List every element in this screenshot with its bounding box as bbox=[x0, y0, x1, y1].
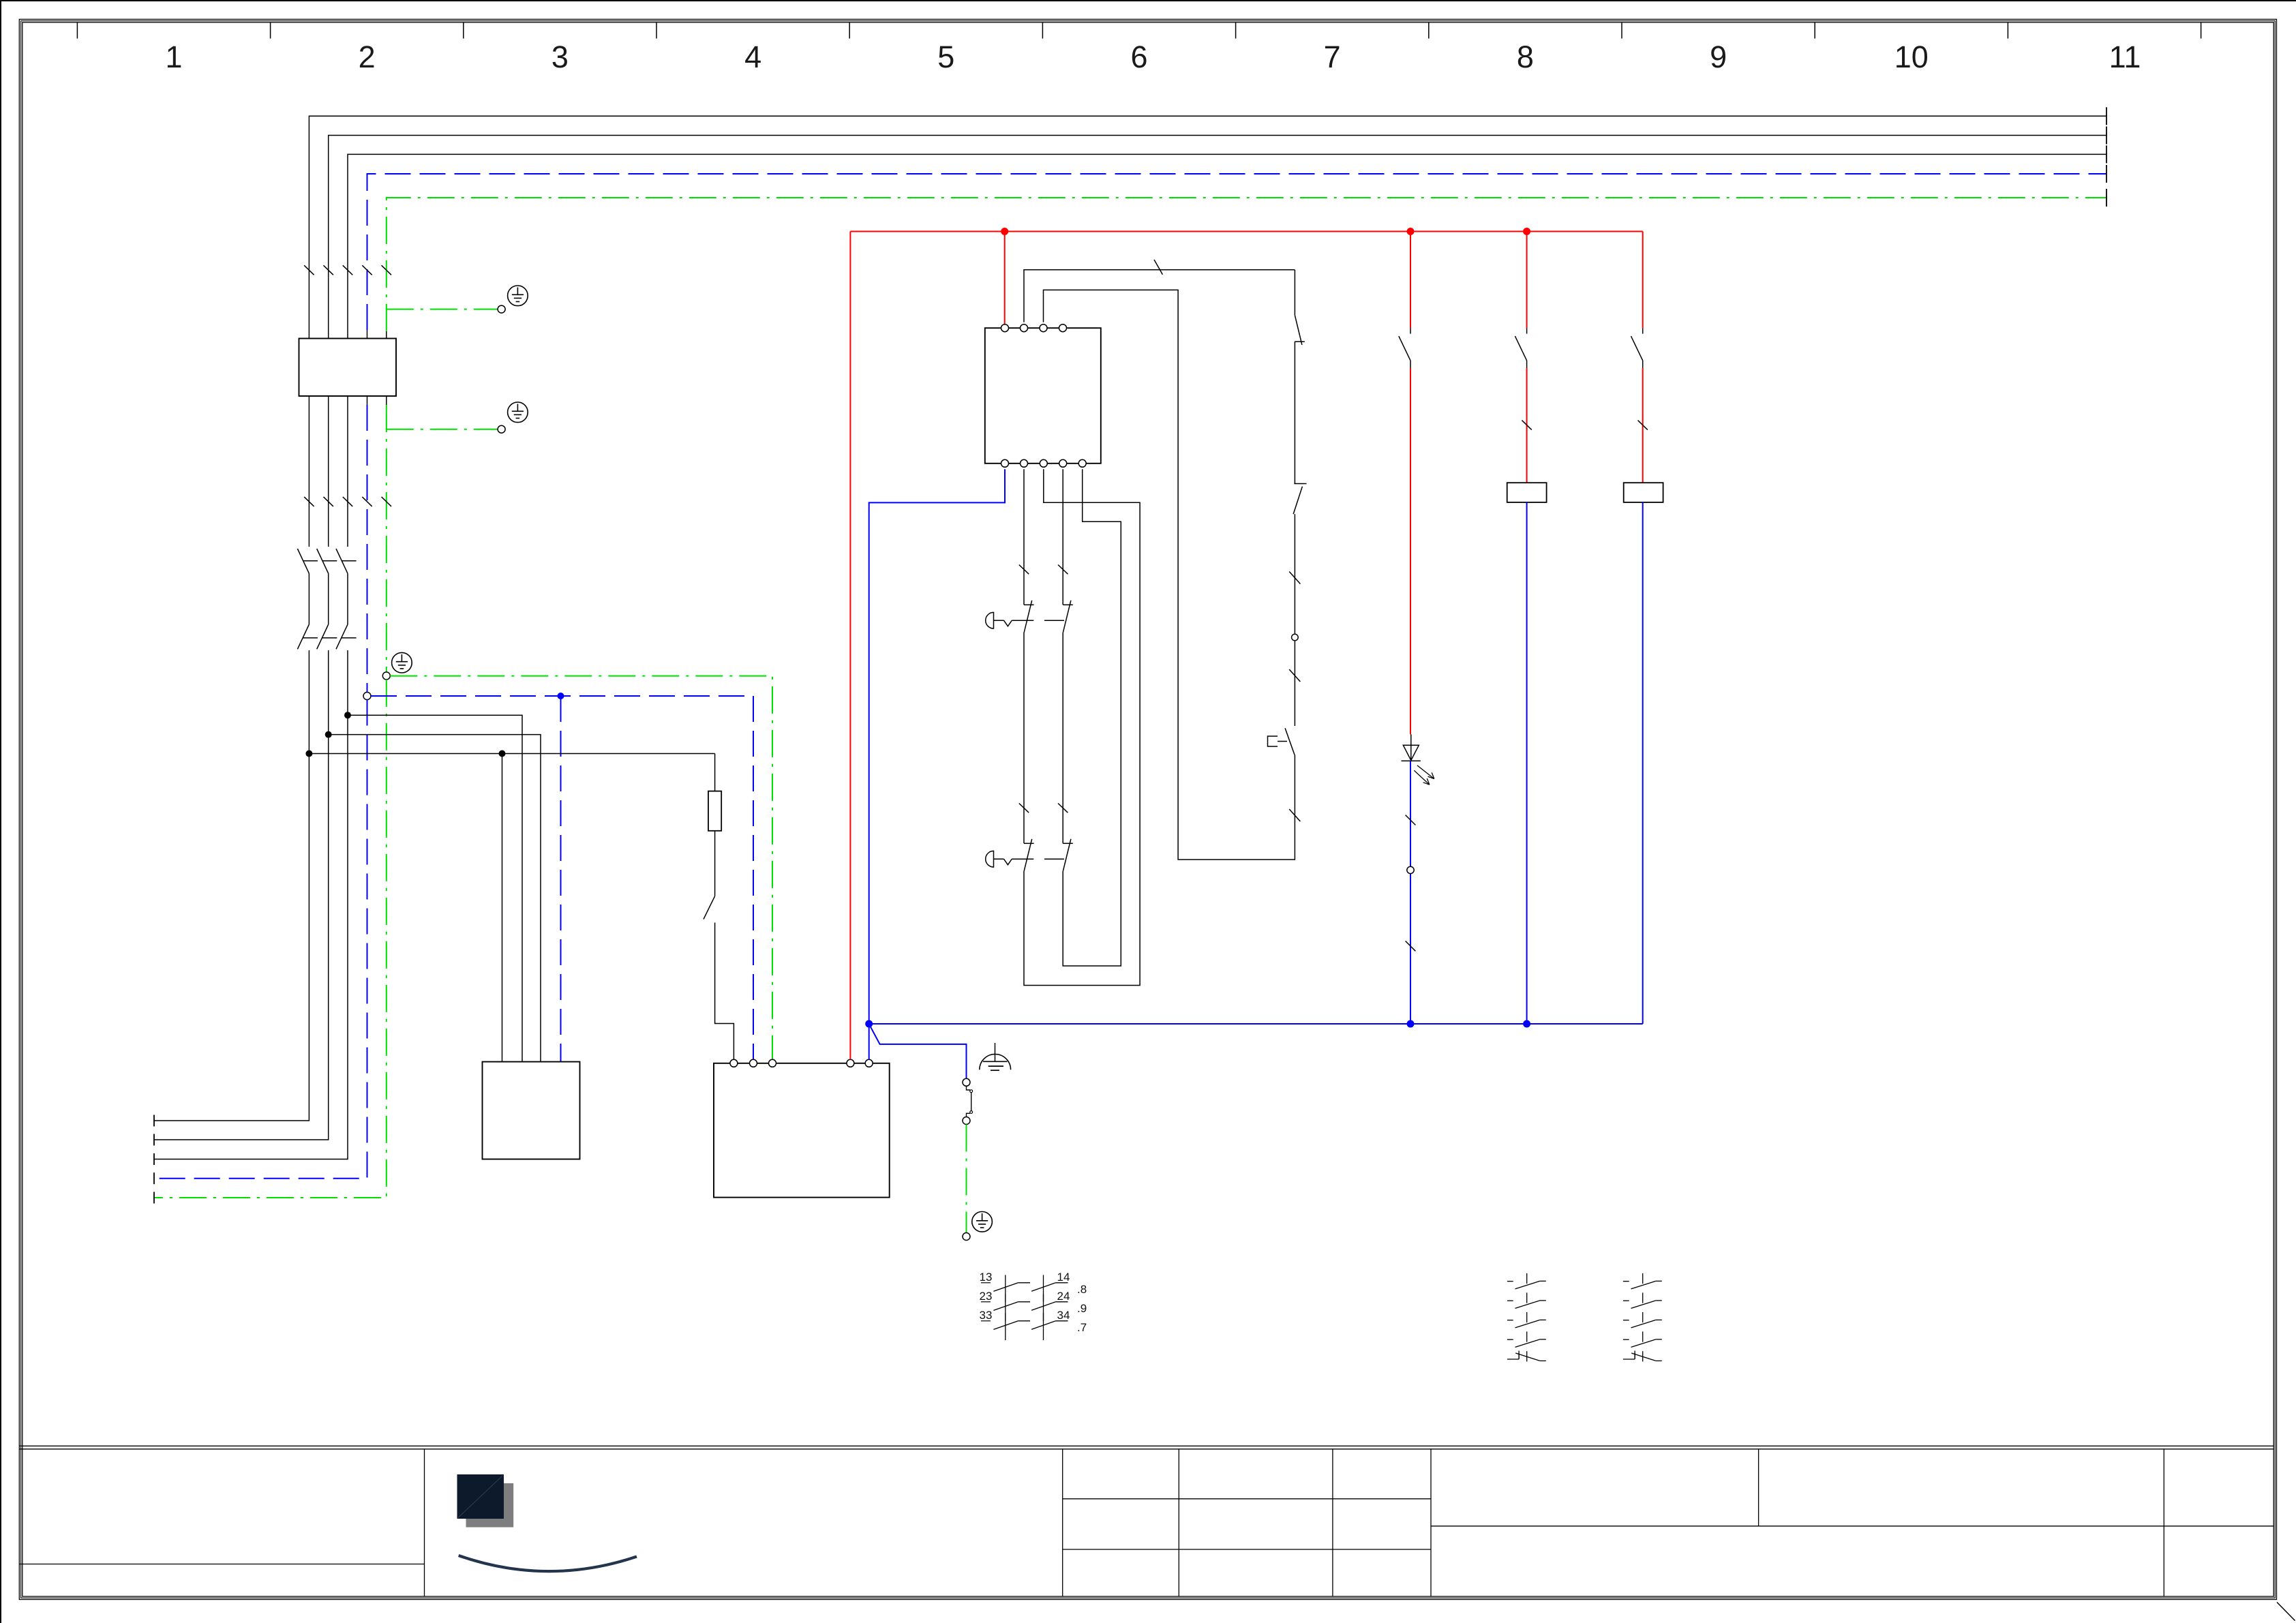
box X1 pin circle 3 bbox=[769, 1059, 776, 1067]
svg-text:8: 8 bbox=[1517, 40, 1534, 74]
pushbutton S2 NO blade bbox=[1285, 728, 1295, 755]
svg-text:4: 4 bbox=[744, 40, 761, 74]
wire outer loop bbox=[1024, 469, 1140, 985]
breaker Q1 pole1 bbox=[297, 549, 318, 649]
K1 bottom pin circle 5 bbox=[1078, 459, 1086, 467]
svg-text:34: 34 bbox=[1057, 1309, 1070, 1322]
contact mirror K1 symbols bbox=[993, 1275, 1068, 1340]
wire L1 horizontal to fuse branch bbox=[309, 753, 714, 755]
box X1 pin circle 2 bbox=[750, 1059, 757, 1067]
conductor marker slashes row1 bbox=[304, 265, 391, 275]
svg-text:14: 14 bbox=[1057, 1271, 1070, 1284]
wire b4 mid bbox=[1062, 633, 1063, 843]
wire bus PE top (green dash-dot) bbox=[387, 198, 2106, 331]
box X1 pin circle 4 bbox=[847, 1059, 854, 1067]
slash b4 upper bbox=[1058, 565, 1068, 575]
wire black LED link bbox=[1410, 734, 1412, 761]
slash b2 lower bbox=[1019, 804, 1029, 813]
ground symbol (dome) near X1 bbox=[980, 1043, 1011, 1070]
PE disconnect link bbox=[967, 1086, 971, 1090]
svg-text:24: 24 bbox=[1057, 1290, 1070, 1303]
svg-text:7: 7 bbox=[1324, 40, 1341, 74]
pin stub below box1 blue bbox=[367, 396, 368, 405]
ground symbol PE branch2 bbox=[508, 402, 528, 423]
wire chain mid1 bbox=[1294, 342, 1295, 483]
wire red drop to box X1 pin4 bbox=[849, 232, 851, 1060]
svg-text:33: 33 bbox=[980, 1309, 993, 1322]
logo swoosh bbox=[459, 1556, 637, 1571]
switch blade S1 bbox=[704, 896, 715, 920]
wire PE horizontal to box2 (green) bbox=[390, 676, 772, 1061]
svg-text:5: 5 bbox=[937, 40, 954, 74]
title block row dividers bbox=[19, 1499, 2274, 1564]
slash colB bbox=[1522, 421, 1531, 430]
junction dot box3 pin1 bbox=[499, 750, 506, 757]
svg-text:.7: .7 bbox=[1077, 1321, 1087, 1334]
slash b2 upper bbox=[1019, 565, 1029, 575]
contact NC-B blade bbox=[1293, 487, 1302, 514]
wire L2 lower exit bbox=[154, 735, 329, 1140]
svg-text:.8: .8 bbox=[1077, 1283, 1087, 1296]
terminal circle PE branch1 bbox=[498, 305, 505, 313]
wire bus L1 top bbox=[309, 116, 2106, 547]
terminal circle N main bbox=[363, 693, 371, 700]
terminal circle chain bbox=[1292, 634, 1299, 641]
wire below switch bbox=[715, 923, 734, 1060]
contact mirror K1 labels bbox=[980, 1271, 1087, 1334]
wire K1 pin b4 down bbox=[1062, 469, 1063, 605]
svg-text:9: 9 bbox=[1710, 40, 1727, 74]
junction dot red colB bbox=[1523, 228, 1530, 235]
wire red colB to coil bbox=[1526, 368, 1528, 483]
contact S4 NC right bbox=[1063, 839, 1073, 872]
wire PE lower (green) bbox=[154, 680, 387, 1198]
junction dot L2 bbox=[325, 731, 332, 738]
wire PE branch2 (green) bbox=[387, 429, 498, 430]
wire N drop to box3 (blue) bbox=[560, 696, 562, 1062]
slash chain 1 bbox=[1289, 572, 1300, 584]
junction dot red colA bbox=[1407, 228, 1415, 235]
wire L1 lower exit bbox=[154, 754, 309, 1121]
wire L2 below breaker bbox=[328, 650, 329, 735]
pushbutton S3 actuator bbox=[986, 612, 1064, 628]
pushbutton S2 link bbox=[1278, 741, 1287, 742]
pushbutton S4 actuator bbox=[986, 851, 1064, 867]
wire red colC upper bbox=[1642, 232, 1644, 329]
wire red colA to LED bbox=[1410, 368, 1411, 734]
left exit end ticks bbox=[153, 1115, 155, 1204]
junction dot red K1 bbox=[1001, 228, 1008, 235]
ground symbol PE branch1 bbox=[508, 286, 528, 306]
svg-text:2: 2 bbox=[359, 40, 376, 74]
K1 bottom pin circle 3 bbox=[1040, 459, 1047, 467]
K1 top pin circle 1 bbox=[1001, 324, 1009, 332]
wire PE below box1 (green) bbox=[386, 405, 387, 672]
slash b4 lower bbox=[1058, 804, 1068, 813]
contact NC-A blade bbox=[1295, 315, 1302, 345]
svg-text:6: 6 bbox=[1130, 40, 1147, 74]
column ruler numbers 1-11 bbox=[165, 40, 2141, 74]
svg-text:1: 1 bbox=[165, 40, 182, 74]
wire blue colA LED to bus bbox=[1410, 761, 1411, 1024]
wire drop to box3 pin1 bbox=[502, 754, 503, 1062]
wire b2 mid bbox=[1023, 633, 1025, 843]
contact mirror K2 group bbox=[1507, 1273, 1546, 1362]
contact S3 NC left bbox=[1024, 601, 1034, 633]
wire blue jog bbox=[870, 1026, 966, 1078]
wire N horizontal to box2 (blue) bbox=[371, 696, 753, 1061]
slash colC bbox=[1638, 421, 1648, 430]
column ruler ticks bbox=[77, 22, 2201, 39]
svg-text:3: 3 bbox=[552, 40, 569, 74]
svg-text:11: 11 bbox=[2109, 40, 2141, 74]
wire blue colB coil to bus bbox=[1526, 502, 1528, 1024]
svg-text:.9: .9 bbox=[1077, 1302, 1087, 1315]
box X1 pin circle 5 bbox=[865, 1059, 873, 1067]
junction dot L1 bbox=[305, 750, 312, 757]
breaker Q1 pole3 bbox=[336, 549, 357, 649]
K1 top pin circle 4 bbox=[1059, 324, 1067, 332]
wire chain bottom bbox=[1044, 290, 1295, 860]
wire N below box1 (blue) bbox=[367, 405, 368, 693]
fuse F1 bbox=[708, 791, 721, 831]
wire red colA upper bbox=[1410, 232, 1411, 329]
coil K3 bbox=[1624, 483, 1663, 502]
LED H1 bbox=[1402, 745, 1434, 785]
junction dot N to box3 (blue) bbox=[558, 693, 564, 699]
contactor K1 box bbox=[985, 328, 1101, 464]
wire blue colC coil to bus bbox=[1642, 502, 1644, 1024]
wire chain top bbox=[1294, 270, 1295, 316]
junction dot blue colB bbox=[1523, 1020, 1530, 1028]
contact K auxiliary colB bbox=[1515, 328, 1526, 368]
bus right end terminal ticks bbox=[2106, 107, 2107, 207]
wire L3 lower exit bbox=[154, 715, 348, 1159]
wire chain mid3 bbox=[1294, 641, 1295, 726]
wire red to K1 pin1 bbox=[1004, 232, 1006, 324]
K1 bottom pin circle 2 bbox=[1021, 459, 1028, 467]
K1 bottom pin circle 4 bbox=[1059, 459, 1067, 467]
wire bus L2 top bbox=[329, 136, 2106, 547]
junction dot L3 bbox=[344, 712, 351, 718]
coil K2 bbox=[1507, 483, 1547, 502]
terminal circle PE main bbox=[382, 672, 390, 680]
K1 top pin circle 2 bbox=[1021, 324, 1028, 332]
page edge line left bbox=[0, 0, 1, 1623]
K1 top pin circle 3 bbox=[1040, 324, 1047, 332]
wire chain mid2 bbox=[1294, 514, 1295, 637]
terminal circle colA bbox=[1407, 866, 1414, 873]
wire green PE to earth bbox=[966, 1125, 967, 1233]
contact S4 NC left bbox=[1024, 839, 1034, 872]
wire inner loop bbox=[1063, 469, 1121, 966]
slash on t2 wire bbox=[1154, 260, 1162, 275]
K1 bottom pin circle 1 bbox=[1001, 459, 1009, 467]
pin stub below box1 green bbox=[386, 396, 387, 405]
terminal circle PE link top bbox=[963, 1078, 970, 1086]
terminal circle PE branch2 bbox=[498, 425, 505, 433]
wire blue N bus bbox=[869, 1023, 1643, 1025]
contact K auxiliary colC bbox=[1631, 328, 1643, 368]
pin stub green into box1 bbox=[386, 331, 387, 339]
ground symbol at PE bottom bbox=[972, 1212, 993, 1232]
title block vertical dividers bbox=[425, 1449, 2164, 1596]
slash chain 2 bbox=[1289, 669, 1300, 682]
wire L2 to box3 pin3 bbox=[329, 735, 541, 1062]
junction dot blue bus left bbox=[865, 1020, 873, 1028]
wire below fuse bbox=[714, 831, 716, 896]
contact NC-B bar bbox=[1294, 483, 1306, 485]
wire N lower (blue) bbox=[154, 700, 367, 1179]
pin stub blue into box1 bbox=[367, 330, 368, 339]
supply terminal box X0 bbox=[299, 339, 397, 397]
wire PE branch1 (green) bbox=[387, 309, 498, 310]
svg-text:23: 23 bbox=[980, 1290, 993, 1303]
wire red control bus bbox=[850, 231, 1642, 232]
wire red colC to coil bbox=[1642, 368, 1644, 483]
conductor marker slashes row2 bbox=[304, 497, 391, 506]
slash chain 3 bbox=[1289, 809, 1300, 821]
wire K1 pin b2 down bbox=[1023, 469, 1025, 605]
page edge line top bbox=[0, 0, 2296, 1]
wire red colB upper bbox=[1526, 232, 1528, 329]
slash colA 1 bbox=[1406, 815, 1416, 825]
device box X1 bbox=[714, 1063, 890, 1198]
wire L3 to box3 pin2 bbox=[348, 715, 522, 1061]
breaker Q1 pole2 bbox=[317, 549, 337, 649]
wire L1 below breaker bbox=[308, 650, 309, 754]
slash colA 2 bbox=[1406, 941, 1416, 952]
wire L3 below breaker bbox=[347, 650, 348, 715]
title block top double line bbox=[19, 1446, 2274, 1449]
pushbutton S2 actuator bracket bbox=[1268, 736, 1278, 746]
page corner diagonal bbox=[2277, 1603, 2295, 1621]
contact S3 NC right bbox=[1063, 601, 1073, 633]
wire bus N top (blue dashed) bbox=[367, 174, 2107, 330]
wire K1 pin t2 up bbox=[1024, 270, 1295, 322]
wire bus L3 top bbox=[348, 154, 2106, 547]
contact K auxiliary colA bbox=[1399, 328, 1410, 368]
wire K1 pin b1 to N junction (blue) bbox=[869, 469, 1005, 1059]
terminal circle earth bottom bbox=[963, 1233, 970, 1241]
box X1 pin circle 1 bbox=[730, 1059, 738, 1067]
logo gray square bbox=[466, 1483, 514, 1528]
contact mirror K3 group bbox=[1623, 1273, 1662, 1362]
svg-text:10: 10 bbox=[1894, 40, 1929, 74]
ground symbol PE main bbox=[392, 652, 412, 673]
svg-text:13: 13 bbox=[980, 1271, 993, 1284]
logo navy square bbox=[457, 1474, 504, 1519]
wire fuse branch upper bbox=[714, 754, 716, 791]
junction dot blue colA bbox=[1407, 1020, 1415, 1028]
device box X2 bbox=[483, 1062, 580, 1159]
contact NC-A bar bbox=[1295, 341, 1305, 342]
terminal circle PE link bottom bbox=[963, 1117, 970, 1125]
